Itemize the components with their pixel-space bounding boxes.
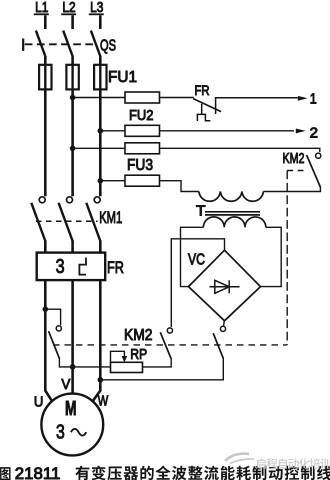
- thermal contact FR right terminal: [216, 98, 298, 114]
- transformer T secondary winding: [203, 217, 265, 227]
- contact KM1 pole 1: [31, 197, 45, 253]
- wire bridge bottom stem: [223, 321, 226, 326]
- wire branch 1: [73, 97, 194, 99]
- svg-text:1: 1: [310, 91, 317, 108]
- fuse FU3a: [125, 143, 160, 154]
- svg-text:T: T: [196, 203, 206, 220]
- svg-text:KM2: KM2: [124, 327, 153, 344]
- QS pole 3 blade: [91, 31, 101, 57]
- fuse FU2a: [125, 92, 160, 103]
- contact KM2-2 blade: [160, 332, 171, 358]
- junction dot (L2, branch 3): [70, 146, 76, 152]
- junction dot (U, brake tap): [43, 306, 49, 312]
- svg-text:3: 3: [56, 420, 65, 443]
- rheostat RP tap arrow: [111, 351, 125, 362]
- contact KM2-2 terminal circle: [167, 328, 172, 333]
- caption text 有变压器的全波整流能耗制动控制线路: [75, 466, 330, 480]
- rheostat RP box: [111, 362, 143, 372]
- svg-text:2: 2: [310, 124, 318, 141]
- wire KM2-1 to RP: [59, 358, 110, 367]
- KM2 linkage vertical (dashed): [286, 171, 288, 345]
- svg-text:W: W: [98, 393, 109, 410]
- wire U phase down: [45, 280, 52, 401]
- wire L3 column (QS to KM1): [99, 57, 102, 197]
- arrowhead to terminal 2: [296, 129, 306, 134]
- tilde (AC) symbol: [71, 429, 86, 436]
- svg-text:KM1: KM1: [99, 209, 122, 227]
- svg-text:V: V: [61, 376, 70, 393]
- svg-text:KM2: KM2: [283, 151, 305, 167]
- contact KM2-3 blade: [213, 333, 223, 358]
- transformer T primary winding: [199, 192, 264, 202]
- fuse FU2b: [125, 125, 160, 136]
- svg-text:RP: RP: [130, 346, 147, 363]
- junction dot (V, brake): [70, 364, 76, 370]
- QS pole 1 blade: [36, 31, 46, 57]
- wire secondary right to bridge: [260, 227, 281, 286]
- svg-text:U: U: [34, 394, 44, 411]
- QS pole 2 blade: [63, 31, 73, 57]
- KM2-4 linkage (dashed): [287, 170, 303, 172]
- diode inside VC: [210, 286, 240, 288]
- thermal relay FR box: [37, 253, 106, 281]
- node L1: [34, 0, 49, 29]
- wire KM2-4 to transformer primary: [263, 187, 320, 192]
- wire branch 4 to transformer: [100, 181, 199, 192]
- svg-text:3: 3: [56, 255, 65, 278]
- contact KM2-4 terminal circle: [316, 153, 321, 158]
- svg-text:M: M: [65, 397, 77, 420]
- node L2: [61, 0, 76, 29]
- contact KM1 pole 3: [86, 197, 100, 253]
- KM1 linkage (dashed): [36, 220, 98, 222]
- watermark swoosh: [225, 454, 254, 464]
- wire secondary left to bridge: [181, 227, 204, 286]
- wire brake tap U: [45, 309, 60, 325]
- node L3: [89, 0, 104, 29]
- fuse FU1b: [66, 65, 78, 90]
- thermal contact FR blade: [193, 99, 221, 112]
- svg-text:VC: VC: [188, 252, 205, 269]
- svg-text:FR: FR: [195, 82, 210, 98]
- thermal contact FR actuator hook: [197, 104, 210, 121]
- wire branch 2: [100, 130, 294, 132]
- fuse FU3b: [125, 175, 160, 186]
- contact KM2-3 terminal circle: [220, 326, 225, 331]
- fuse FU1c: [94, 65, 106, 90]
- rectifier VC diamond: [189, 250, 261, 321]
- KM2 lower linkage (dashed): [53, 344, 287, 346]
- wire L1 column (QS to KM1): [44, 57, 47, 197]
- transformer T core: [205, 211, 260, 213]
- svg-text:QS: QS: [100, 38, 116, 55]
- caption char 图: [0, 467, 10, 480]
- wire KM2-3 to W: [100, 358, 223, 380]
- contact KM2-1 terminal circle: [56, 326, 61, 331]
- contact KM2-1 blade: [49, 331, 60, 358]
- fuse FU1a: [39, 65, 51, 90]
- wire W phase down: [93, 280, 100, 401]
- switch QS mechanical link (dashed): [25, 43, 97, 45]
- watermark 启程自动化培训: [256, 458, 330, 469]
- wire bridge top output: [171, 239, 224, 327]
- junction dot (L3, branch 4): [98, 178, 104, 184]
- switch QS handle bar: [22, 39, 24, 51]
- arrowhead to terminal 1: [298, 96, 308, 101]
- contact KM2-4 blade: [307, 155, 321, 187]
- wire branch 3: [73, 148, 320, 152]
- svg-text:FU3: FU3: [127, 157, 153, 174]
- svg-text:FU2: FU2: [129, 108, 154, 124]
- junction dot (L2, branch 1): [70, 95, 76, 101]
- wire RP to KM2-2: [143, 358, 172, 367]
- junction dot (W, brake): [98, 377, 104, 383]
- contact KM1 pole 2: [59, 197, 73, 253]
- svg-text:FU1: FU1: [108, 69, 137, 86]
- FR heater element symbol: [79, 258, 86, 275]
- wire V phase down: [71, 280, 74, 394]
- motor M circle: [41, 394, 103, 456]
- junction dot (L3, branch 2): [98, 128, 104, 134]
- svg-text:21811: 21811: [15, 465, 61, 480]
- wire L2 column (QS to KM1): [71, 57, 74, 197]
- svg-text:FR: FR: [107, 258, 124, 277]
